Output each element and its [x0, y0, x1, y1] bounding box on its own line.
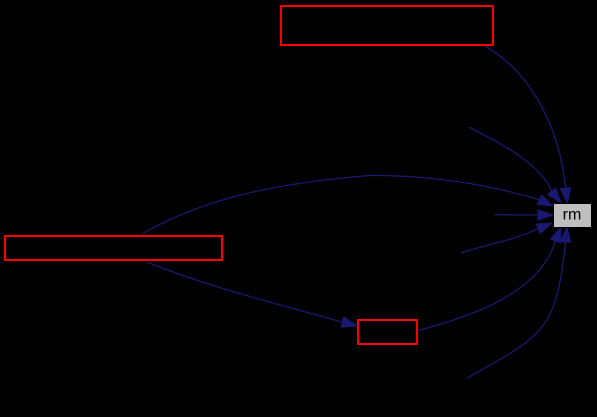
edge: hidden caller node -> rm (lower left) — [461, 223, 552, 253]
label: rm — [563, 207, 582, 224]
node: top caller (truncated, red outline) — [281, 6, 493, 45]
edge: hidden caller node -> rm (bottom) — [467, 227, 571, 378]
edge: top caller node -> rm — [485, 46, 571, 203]
node: small caller (truncated, red outline) — [358, 320, 417, 344]
edge: left caller node -> small caller node — [147, 262, 357, 327]
svg-text:rm: rm — [563, 207, 582, 224]
node: left caller (truncated, red outline) — [5, 236, 222, 260]
edge: hidden caller node -> rm (horizontal) — [495, 210, 553, 220]
edge: hidden caller node -> rm (upper middle) — [469, 127, 561, 203]
node: rm (current function, grey box) — [554, 204, 592, 228]
edge: left caller node -> rm (long top arc) — [142, 175, 553, 234]
edge: small caller node -> rm — [418, 227, 561, 331]
